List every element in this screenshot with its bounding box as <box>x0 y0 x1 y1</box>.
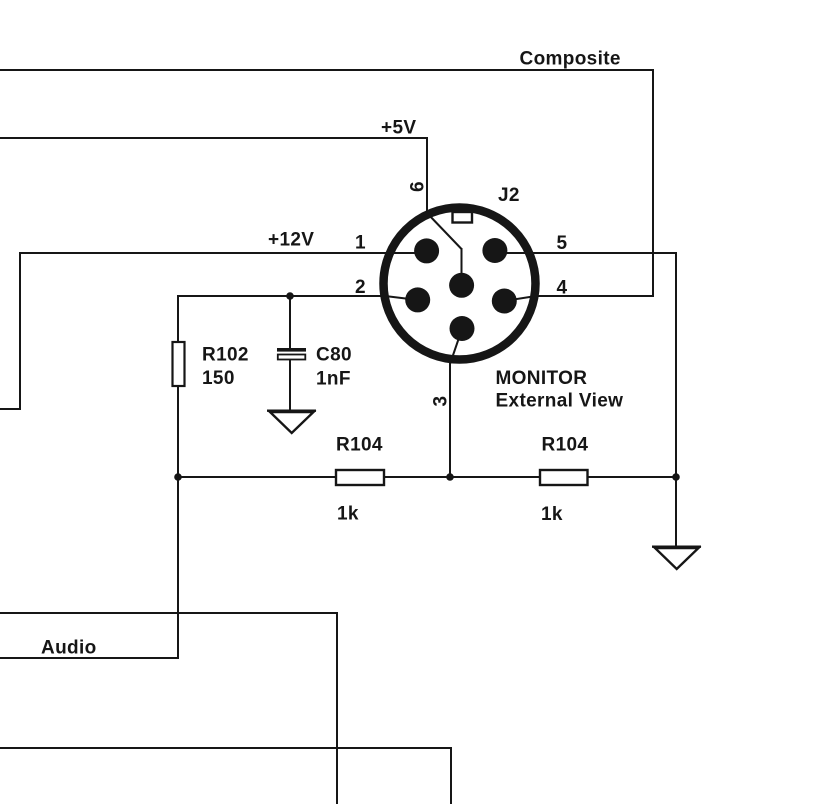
wire pin2 horizontal <box>178 295 386 297</box>
wire bottom bus middle segment <box>384 476 539 478</box>
wire +5V horizontal <box>0 137 428 139</box>
connector pin 1 contact <box>414 238 439 263</box>
svg-text:R104: R104 <box>336 435 383 456</box>
wire Composite vertical drop <box>652 69 654 297</box>
wire C80 bottom lead <box>289 359 291 411</box>
wire pin3 stub diagonal <box>450 329 462 364</box>
svg-text:R102: R102 <box>202 345 249 366</box>
svg-text:1nF: 1nF <box>316 369 351 390</box>
svg-text:1k: 1k <box>337 504 359 525</box>
resistor R104 right <box>540 470 588 485</box>
svg-text:3: 3 <box>431 396 452 407</box>
connector pin 6 contact (center) <box>449 273 474 298</box>
svg-text:+12V: +12V <box>268 230 314 251</box>
wire lower-left horizontal upper <box>0 612 338 614</box>
wire Composite horizontal <box>0 69 654 71</box>
connector pin 4 contact <box>492 289 517 314</box>
connector pin 2 contact <box>405 287 430 312</box>
svg-text:C80: C80 <box>316 345 352 366</box>
wire R102 top lead <box>177 295 179 343</box>
wire bottom bus right segment <box>587 476 677 478</box>
ground under C80 <box>267 411 316 433</box>
wire pin6 vertical to center pin <box>461 248 463 285</box>
svg-text:150: 150 <box>202 368 235 389</box>
connector J2 index notch <box>453 212 473 223</box>
wire pin5 horizontal <box>495 252 677 254</box>
wire C80 top lead <box>289 296 291 349</box>
svg-text:R104: R104 <box>542 435 589 456</box>
wire pin6 diagonal inside connector <box>427 213 462 249</box>
connector pin 5 contact <box>482 238 507 263</box>
svg-text:1k: 1k <box>541 504 563 525</box>
wire R102 bottom lead to bus <box>177 386 179 478</box>
wire pin2 stub diagonal <box>385 296 418 300</box>
connector J2 outer ring <box>384 208 536 360</box>
wire audio branch vertical <box>177 477 179 659</box>
wire +12V vertical riser <box>19 252 21 410</box>
svg-text:4: 4 <box>557 278 568 299</box>
wire +12V to pin1 <box>19 252 427 254</box>
svg-text:+5V: +5V <box>381 118 416 139</box>
connector pin 3 contact <box>450 316 475 341</box>
resistor R104 left <box>336 470 384 485</box>
wire Audio horizontal <box>0 657 179 659</box>
svg-text:5: 5 <box>557 233 568 254</box>
wire lower-left vertical 2 <box>450 747 452 804</box>
svg-text:J2: J2 <box>498 185 520 206</box>
ground at right <box>652 547 701 569</box>
junction dot bus left <box>174 473 182 481</box>
svg-text:External View: External View <box>496 391 624 412</box>
junction dot pin2/C80 <box>286 292 294 300</box>
wire pin4 stub diagonal <box>504 296 536 301</box>
resistor R102 <box>173 342 185 386</box>
wire pin6 vertical drop <box>426 137 428 215</box>
svg-text:Composite: Composite <box>520 49 621 70</box>
junction dot bus middle <box>446 473 454 481</box>
capacitor C80 <box>277 348 306 352</box>
wire +12V entry horizontal <box>0 408 21 410</box>
wire lower-left horizontal lower <box>0 747 452 749</box>
wire bottom bus left segment <box>178 476 337 478</box>
wire pin5 vertical drop to ground <box>675 252 677 547</box>
wire lower-left vertical 1 <box>336 612 338 804</box>
svg-text:1: 1 <box>355 233 366 254</box>
junction dot bus right <box>672 473 680 481</box>
svg-text:Audio: Audio <box>41 638 97 659</box>
svg-text:2: 2 <box>355 277 366 298</box>
svg-text:6: 6 <box>408 181 429 192</box>
wire pin3 vertical <box>449 362 451 478</box>
svg-text:MONITOR: MONITOR <box>496 368 588 389</box>
wire pin4 horizontal <box>534 295 654 297</box>
